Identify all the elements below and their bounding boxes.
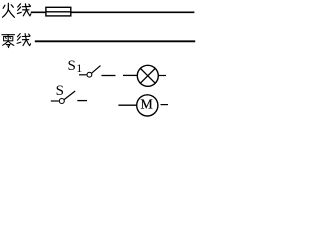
wire (S left lead) xyxy=(51,100,59,102)
label S1 xyxy=(68,58,83,75)
label 火线 (live wire text) xyxy=(3,3,31,17)
motor M1 xyxy=(137,95,158,116)
switch S xyxy=(59,91,75,104)
svg-text:M: M xyxy=(141,97,153,112)
label 零线 (neutral wire text) xyxy=(2,34,31,48)
svg-text:S: S xyxy=(56,83,64,99)
neutral wire xyxy=(35,40,195,42)
wire (lamp right lead) xyxy=(159,75,166,77)
label S xyxy=(56,83,64,99)
live wire xyxy=(31,11,195,13)
fuse xyxy=(46,7,71,16)
wire (S1 left lead) xyxy=(79,74,86,76)
wire (lamp left lead) xyxy=(123,74,137,76)
wire (stub after S1) xyxy=(102,75,116,77)
svg-text:1: 1 xyxy=(76,61,82,75)
svg-text:S: S xyxy=(68,58,76,74)
wire (motor left lead) xyxy=(118,104,136,106)
switch S1 xyxy=(87,66,101,78)
lamp xyxy=(137,65,158,86)
wire (motor right lead) xyxy=(161,104,169,106)
wire (stub after S) xyxy=(77,100,87,102)
